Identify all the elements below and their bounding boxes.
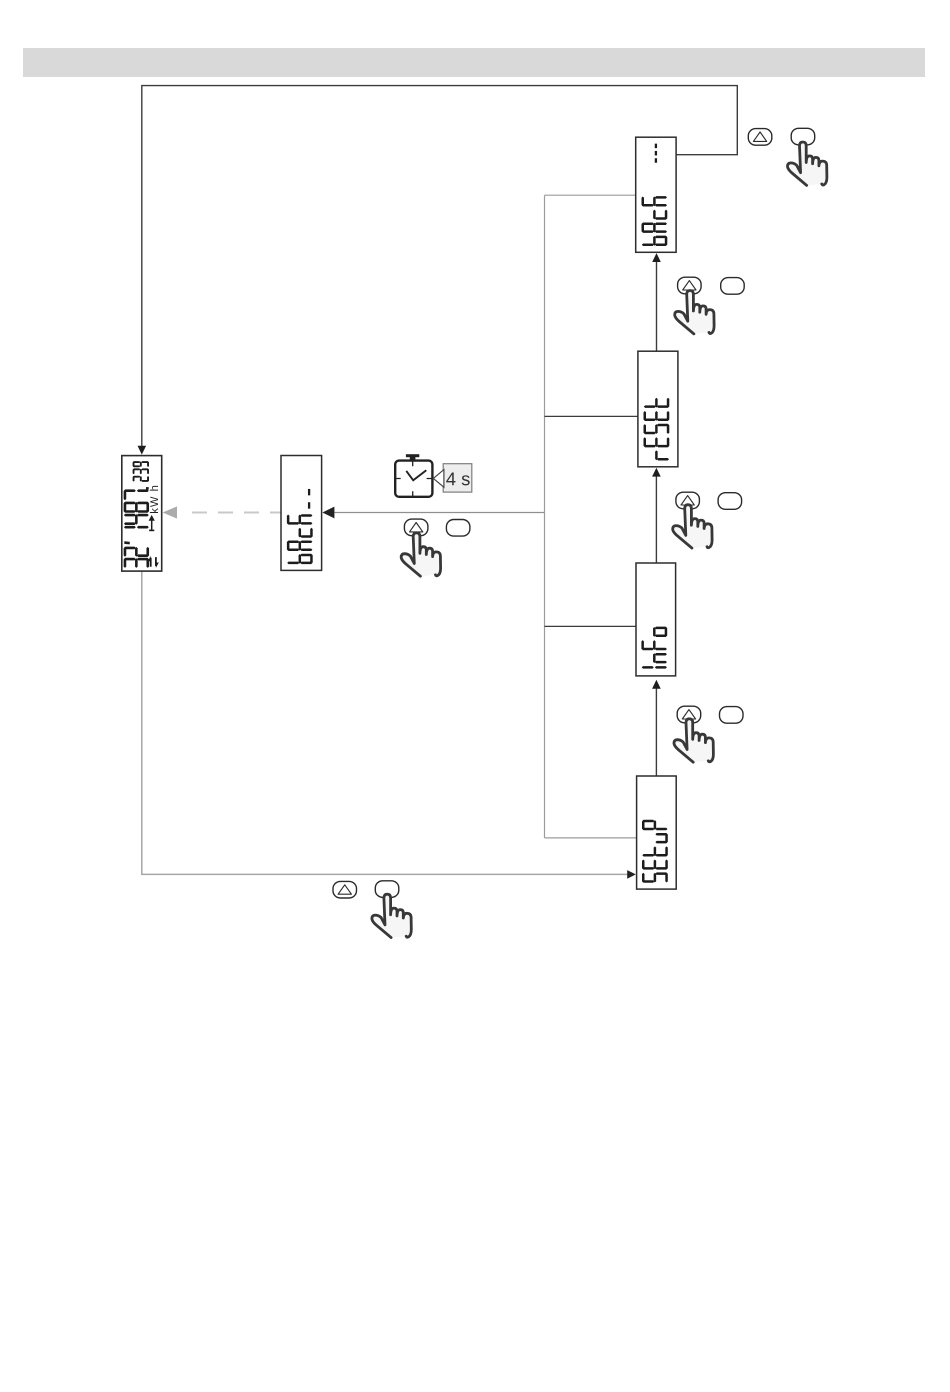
meter display box (32 1487.239 kWh) xyxy=(122,456,162,571)
decimal point xyxy=(146,487,149,490)
button OK hold UP 4s xyxy=(446,520,470,537)
button OK InFo to rESEt xyxy=(718,493,742,510)
hand pressing UP (hold UP 4s) xyxy=(401,533,440,576)
wire: bus branch to rESEt box xyxy=(545,415,638,417)
menu box bAck xyxy=(636,137,676,252)
clock/timer icon xyxy=(395,454,432,497)
wire: menu bus (vertical gray) xyxy=(544,195,546,838)
gray arrowhead into display right edge xyxy=(163,506,177,518)
arrowhead into bAck_ box xyxy=(322,507,334,519)
thousands separator tick xyxy=(124,541,130,544)
hand pressing UP (rESEt to bAck) xyxy=(675,291,714,334)
hand pressing OK (enter SEtuP) xyxy=(372,894,411,937)
7-segment text "bAck" in box bAck_ (leaving menu) xyxy=(287,489,313,564)
digits 239 (small) xyxy=(133,476,135,482)
wire: bus branch to SEtuP box xyxy=(545,837,637,839)
button UP rESEt to bAck xyxy=(678,277,702,294)
tariff up/down arrows xyxy=(151,557,156,567)
arrow: InFo to rESEt xyxy=(655,476,657,563)
menu box InFo xyxy=(636,563,676,676)
button OK enter SEtuP xyxy=(375,881,399,898)
arrowhead into SEtuP left edge xyxy=(627,870,636,879)
button OK top (exit menu) xyxy=(791,128,815,145)
wire: bAck box to display (top return loop) xyxy=(142,86,738,446)
7-segment text "rESEt" in box rESEt xyxy=(644,398,670,461)
button UP enter SEtuP xyxy=(333,881,357,898)
7-segment text "SEtuP" in box SEtuP xyxy=(642,820,668,883)
button UP SEtuP to InFo xyxy=(677,706,701,723)
arrow: SEtuP to InFo xyxy=(655,688,657,776)
dashed wire: bAck_ box to display xyxy=(192,511,281,513)
digits 1487 xyxy=(124,526,136,529)
arrow: rESEt to bAck xyxy=(656,262,658,352)
button UP top (exit menu) xyxy=(748,129,772,146)
hand pressing UP (SEtuP to InFo) xyxy=(674,719,713,762)
unit label kW h xyxy=(150,486,158,513)
7-segment text "bAck" in box bAck xyxy=(642,144,668,246)
button OK rESEt to bAck xyxy=(721,278,745,295)
button UP hold UP 4s xyxy=(404,519,428,536)
"4 s" label bubble xyxy=(433,464,472,492)
wire: bus branch to InFo box xyxy=(545,625,636,627)
button OK SEtuP to InFo xyxy=(720,707,744,724)
display content (rotated LCD) xyxy=(124,461,159,568)
idle dashes xyxy=(655,158,657,163)
button UP InFo to rESEt xyxy=(676,492,700,509)
digits 32 xyxy=(124,558,127,568)
menu box rESEt xyxy=(638,351,678,467)
menu box bAck_ (leaving menu) xyxy=(281,456,322,571)
wire: display to SEtuP (bottom return) xyxy=(142,571,628,874)
page header bar xyxy=(23,48,925,77)
load direction arrow xyxy=(149,530,154,532)
7-segment text "InFo" in box InFo xyxy=(641,627,667,669)
underscore cursors xyxy=(308,502,310,508)
wire: bus branch to bAck box xyxy=(545,194,636,196)
wire: bus to bAck_ box xyxy=(334,512,544,514)
hand pressing OK (top (exit menu)) xyxy=(787,142,826,185)
hand pressing UP (InFo to rESEt) xyxy=(673,505,712,548)
arrowhead into display top xyxy=(138,446,147,455)
menu box SEtuP xyxy=(637,776,677,889)
